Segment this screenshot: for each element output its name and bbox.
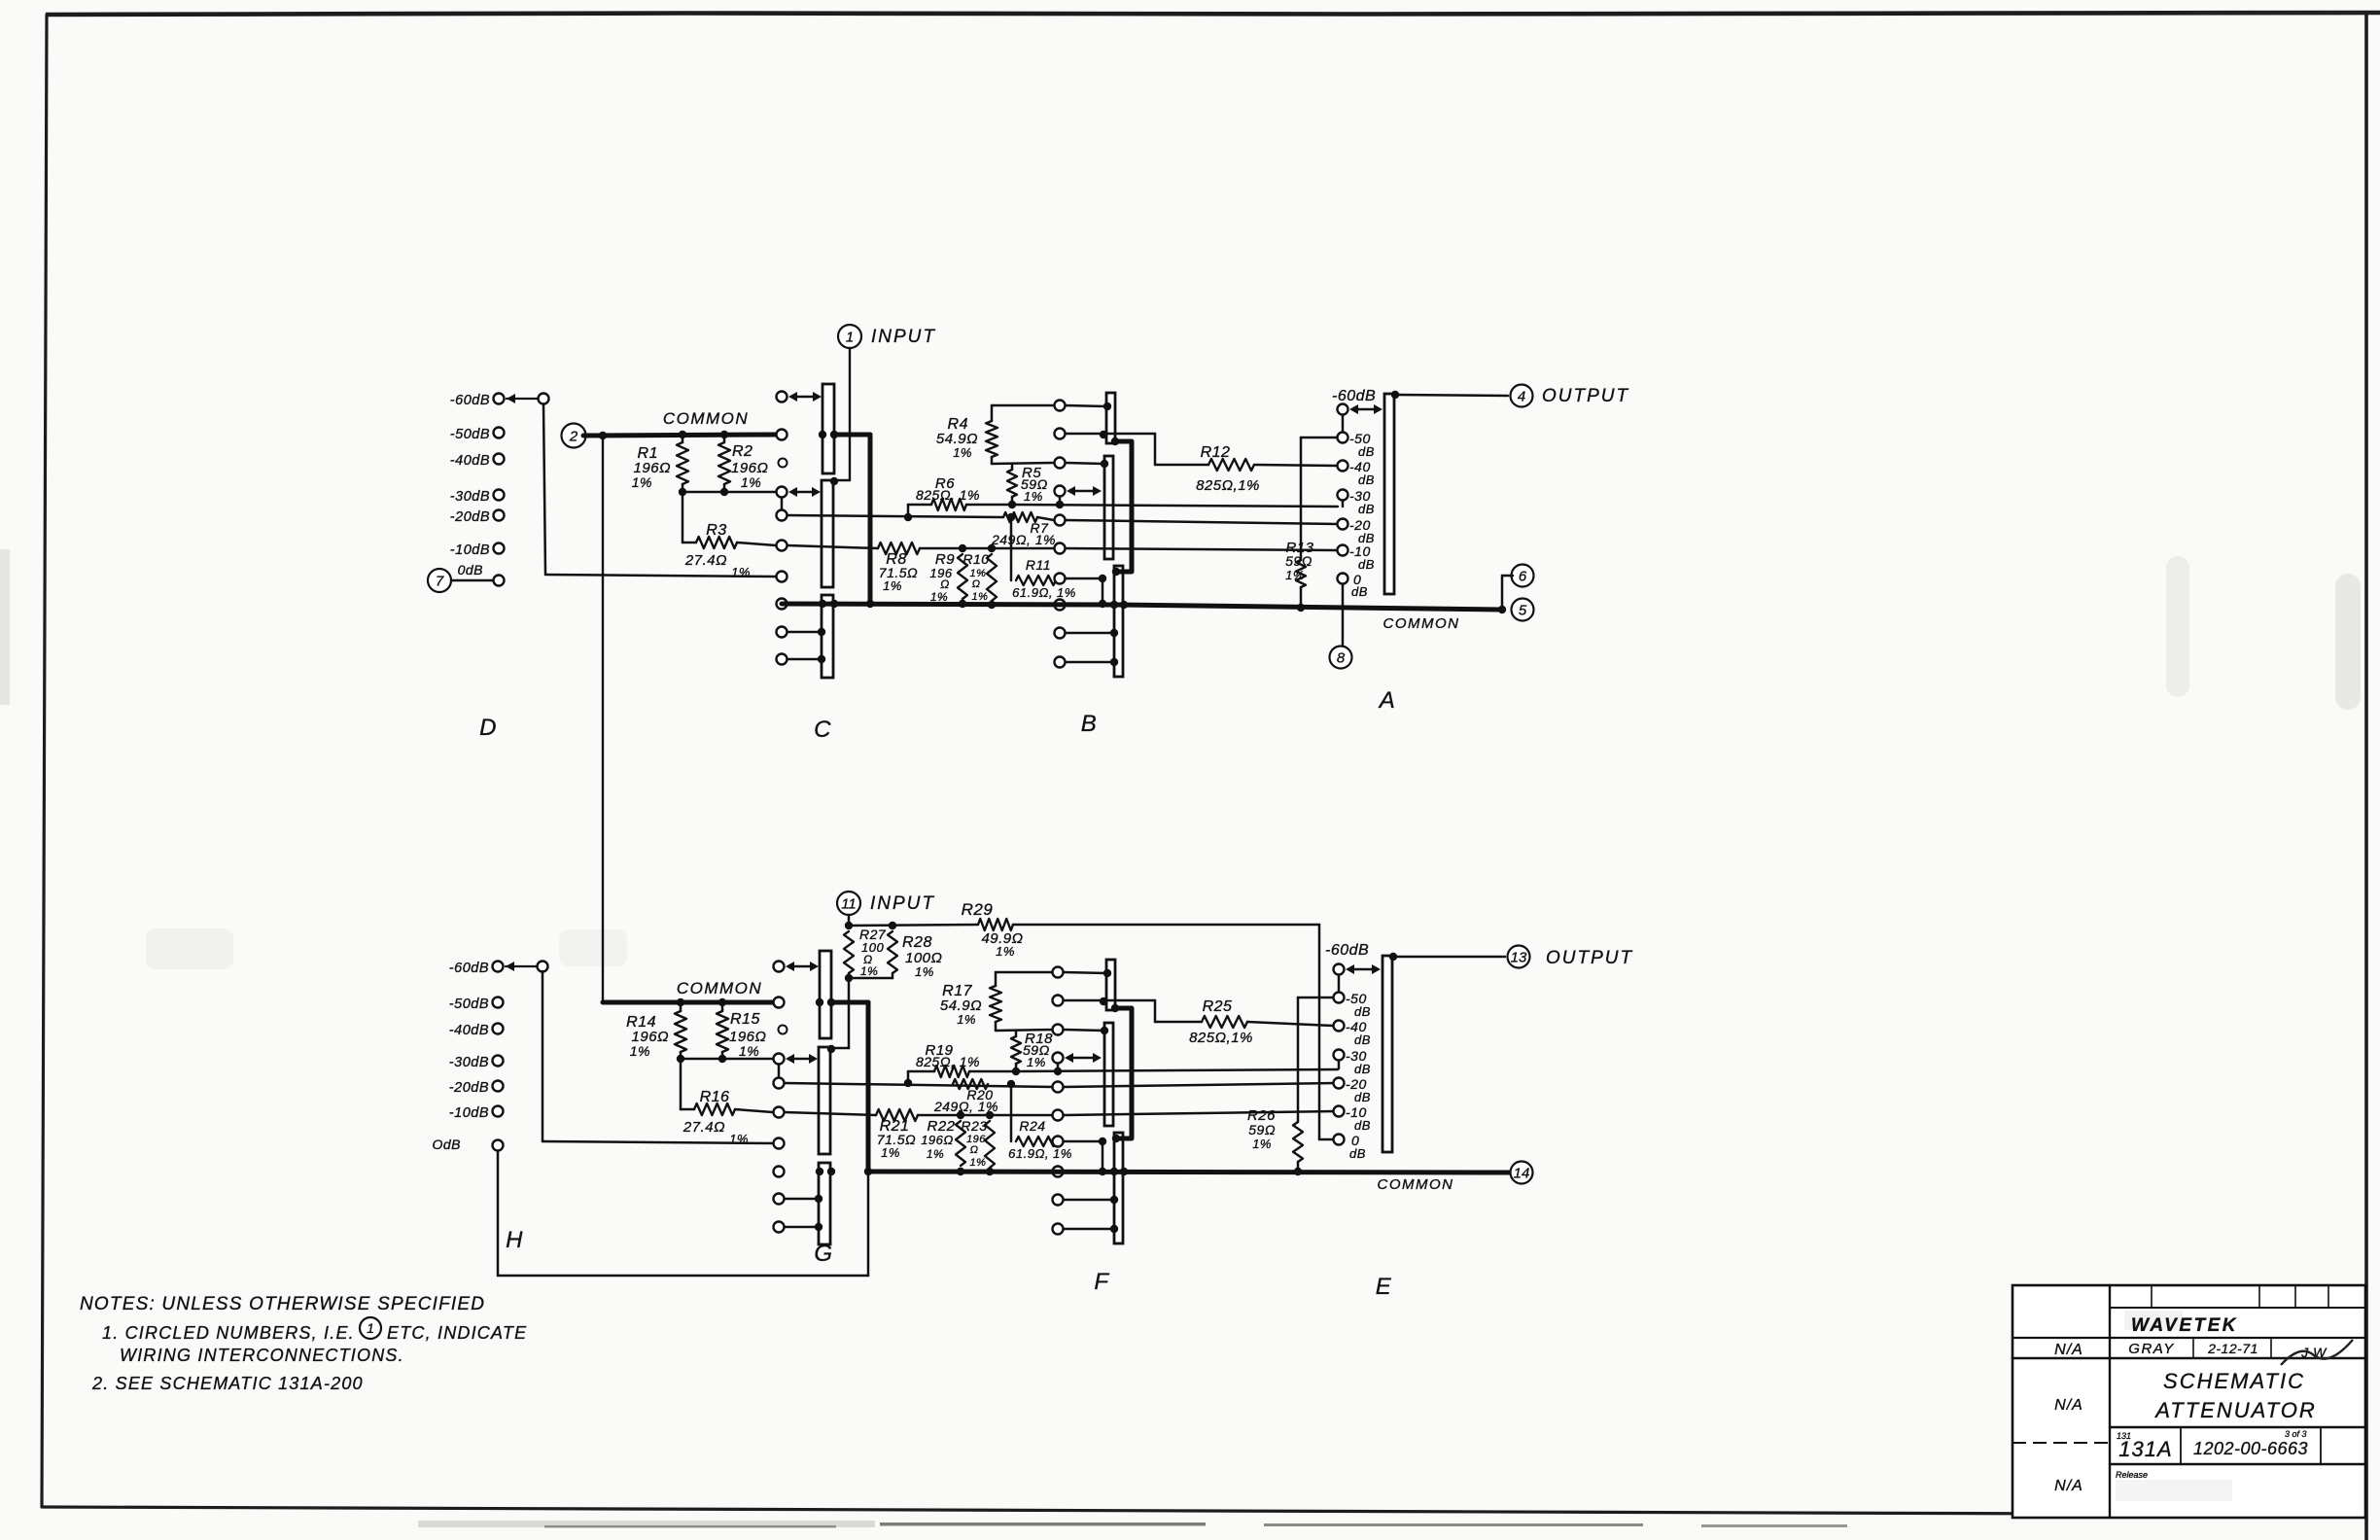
svg-text:R10: R10 [962, 551, 989, 567]
svg-text:825Ω, 1%: 825Ω, 1% [916, 487, 980, 503]
svg-text:B: B [1081, 711, 1098, 737]
svg-text:2-12-71: 2-12-71 [2207, 1341, 2258, 1356]
svg-text:1%: 1% [1252, 1137, 1272, 1151]
svg-text:COMMON: COMMON [1383, 615, 1460, 632]
svg-text:dB: dB [1358, 444, 1375, 459]
svg-text:dB: dB [1358, 472, 1375, 487]
svg-text:5: 5 [1519, 602, 1527, 618]
svg-text:1%: 1% [927, 1147, 944, 1161]
svg-text:1%: 1% [741, 474, 761, 490]
svg-text:1%: 1% [739, 1043, 759, 1059]
svg-text:ETC, INDICATE: ETC, INDICATE [387, 1323, 527, 1343]
svg-text:7: 7 [436, 573, 444, 589]
svg-text:-40dB: -40dB [449, 1023, 489, 1038]
svg-text:dB: dB [1354, 1090, 1371, 1104]
svg-text:13: 13 [1511, 949, 1527, 965]
svg-text:Ω: Ω [970, 1144, 979, 1156]
svg-text:-20dB: -20dB [450, 509, 490, 525]
svg-text:-60dB: -60dB [1332, 388, 1376, 404]
svg-text:WIRING INTERCONNECTIONS.: WIRING INTERCONNECTIONS. [120, 1346, 404, 1365]
svg-text:COMMON: COMMON [663, 409, 749, 428]
svg-text:N/A: N/A [2054, 1342, 2083, 1358]
svg-text:dB: dB [1358, 502, 1375, 516]
svg-text:1: 1 [846, 329, 854, 345]
svg-text:Release: Release [2116, 1470, 2148, 1480]
svg-text:1%: 1% [729, 1132, 749, 1146]
svg-text:59Ω: 59Ω [1285, 553, 1312, 569]
svg-text:-60dB: -60dB [450, 393, 490, 408]
svg-text:COMMON: COMMON [677, 979, 762, 997]
svg-text:F: F [1094, 1269, 1109, 1295]
svg-text:1%: 1% [630, 1043, 650, 1059]
svg-text:1%: 1% [883, 578, 902, 593]
svg-text:-20dB: -20dB [449, 1080, 489, 1096]
svg-text:1%: 1% [996, 944, 1015, 959]
svg-text:825Ω, 1%: 825Ω, 1% [916, 1054, 980, 1069]
svg-text:3 of 3: 3 of 3 [2285, 1429, 2307, 1439]
svg-text:0dB: 0dB [458, 562, 483, 577]
svg-text:-60dB: -60dB [449, 961, 489, 976]
svg-text:14: 14 [1514, 1165, 1530, 1181]
svg-text:1202-00-6663: 1202-00-6663 [2193, 1439, 2308, 1458]
svg-text:1%: 1% [930, 590, 948, 604]
svg-text:G: G [814, 1241, 832, 1267]
svg-text:1%: 1% [915, 964, 934, 979]
svg-text:59Ω: 59Ω [1248, 1122, 1276, 1137]
svg-text:GRAY: GRAY [2128, 1341, 2174, 1357]
svg-text:11: 11 [841, 895, 857, 912]
svg-text:249Ω, 1%: 249Ω, 1% [933, 1099, 998, 1114]
svg-text:SCHEMATIC: SCHEMATIC [2163, 1369, 2305, 1393]
svg-text:-60dB: -60dB [1325, 942, 1369, 959]
svg-text:dB: dB [1349, 1146, 1366, 1161]
svg-text:61.9Ω, 1%: 61.9Ω, 1% [1012, 585, 1076, 600]
svg-text:R25: R25 [1203, 998, 1233, 1015]
svg-text:1. CIRCLED NUMBERS, I.E.: 1. CIRCLED NUMBERS, I.E. [102, 1323, 355, 1343]
svg-text:E: E [1376, 1274, 1392, 1300]
svg-text:249Ω, 1%: 249Ω, 1% [991, 532, 1056, 547]
svg-text:R24: R24 [1019, 1118, 1045, 1134]
svg-text:1%: 1% [957, 1012, 976, 1027]
svg-text:NOTES: UNLESS OTHERWISE SPECIF: NOTES: UNLESS OTHERWISE SPECIFIED [80, 1294, 485, 1314]
svg-text:1%: 1% [972, 591, 989, 603]
svg-text:OdB: OdB [432, 1137, 461, 1152]
svg-text:1%: 1% [632, 474, 652, 490]
svg-text:-30dB: -30dB [449, 1055, 489, 1070]
svg-text:-10dB: -10dB [449, 1105, 489, 1121]
svg-text:dB: dB [1358, 557, 1375, 572]
svg-text:825Ω,1%: 825Ω,1% [1196, 477, 1260, 494]
svg-text:dB: dB [1351, 584, 1368, 599]
svg-text:R29: R29 [962, 900, 994, 919]
svg-text:1%: 1% [970, 1157, 987, 1169]
svg-text:1%: 1% [953, 445, 972, 460]
svg-text:R2: R2 [732, 443, 752, 460]
svg-text:131: 131 [2117, 1431, 2131, 1441]
svg-text:1: 1 [367, 1320, 374, 1336]
svg-text:OUTPUT: OUTPUT [1542, 386, 1629, 406]
svg-text:C: C [814, 717, 831, 743]
svg-text:27.4Ω: 27.4Ω [682, 1119, 725, 1136]
svg-text:4: 4 [1518, 388, 1525, 404]
svg-text:R28: R28 [902, 934, 932, 951]
svg-text:R12: R12 [1201, 444, 1231, 461]
svg-text:2: 2 [569, 428, 578, 444]
svg-text:INPUT: INPUT [870, 893, 935, 914]
svg-text:Ω: Ω [940, 577, 950, 591]
svg-text:-50dB: -50dB [449, 997, 489, 1012]
svg-text:-50dB: -50dB [450, 427, 490, 442]
svg-text:dB: dB [1354, 1032, 1371, 1047]
svg-text:-40dB: -40dB [450, 453, 490, 469]
svg-text:dB: dB [1354, 1004, 1371, 1019]
svg-text:1%: 1% [1027, 1055, 1046, 1069]
svg-text:N/A: N/A [2054, 1397, 2083, 1414]
svg-text:Ω: Ω [972, 578, 981, 590]
svg-text:OUTPUT: OUTPUT [1546, 948, 1633, 968]
svg-text:27.4Ω: 27.4Ω [684, 552, 727, 569]
svg-text:ATTENUATOR: ATTENUATOR [2153, 1398, 2316, 1422]
svg-text:-10dB: -10dB [450, 542, 490, 558]
svg-text:A: A [1378, 687, 1396, 714]
svg-text:2. SEE SCHEMATIC 131A-200: 2. SEE SCHEMATIC 131A-200 [91, 1374, 364, 1393]
svg-text:H: H [506, 1227, 523, 1253]
svg-text:1%: 1% [1285, 568, 1305, 582]
svg-text:R16: R16 [700, 1089, 730, 1105]
svg-text:COMMON: COMMON [1378, 1176, 1454, 1193]
svg-text:1%: 1% [881, 1145, 900, 1160]
svg-text:825Ω,1%: 825Ω,1% [1189, 1030, 1253, 1046]
svg-text:INPUT: INPUT [871, 327, 936, 347]
svg-text:dB: dB [1354, 1118, 1371, 1133]
svg-text:-30dB: -30dB [450, 489, 490, 505]
svg-text:1%: 1% [731, 565, 751, 579]
svg-text:8: 8 [1337, 649, 1346, 666]
svg-text:1%: 1% [1024, 489, 1043, 504]
svg-text:R3: R3 [706, 522, 726, 539]
svg-text:1%: 1% [860, 964, 878, 978]
svg-text:196Ω: 196Ω [921, 1133, 954, 1147]
svg-text:D: D [479, 715, 497, 741]
svg-text:6: 6 [1519, 568, 1527, 584]
svg-text:N/A: N/A [2054, 1478, 2083, 1494]
svg-text:R23: R23 [961, 1118, 987, 1134]
svg-text:R15: R15 [730, 1011, 760, 1028]
svg-text:61.9Ω, 1%: 61.9Ω, 1% [1008, 1146, 1072, 1161]
svg-text:R11: R11 [1026, 557, 1051, 573]
svg-text:dB: dB [1354, 1062, 1371, 1076]
